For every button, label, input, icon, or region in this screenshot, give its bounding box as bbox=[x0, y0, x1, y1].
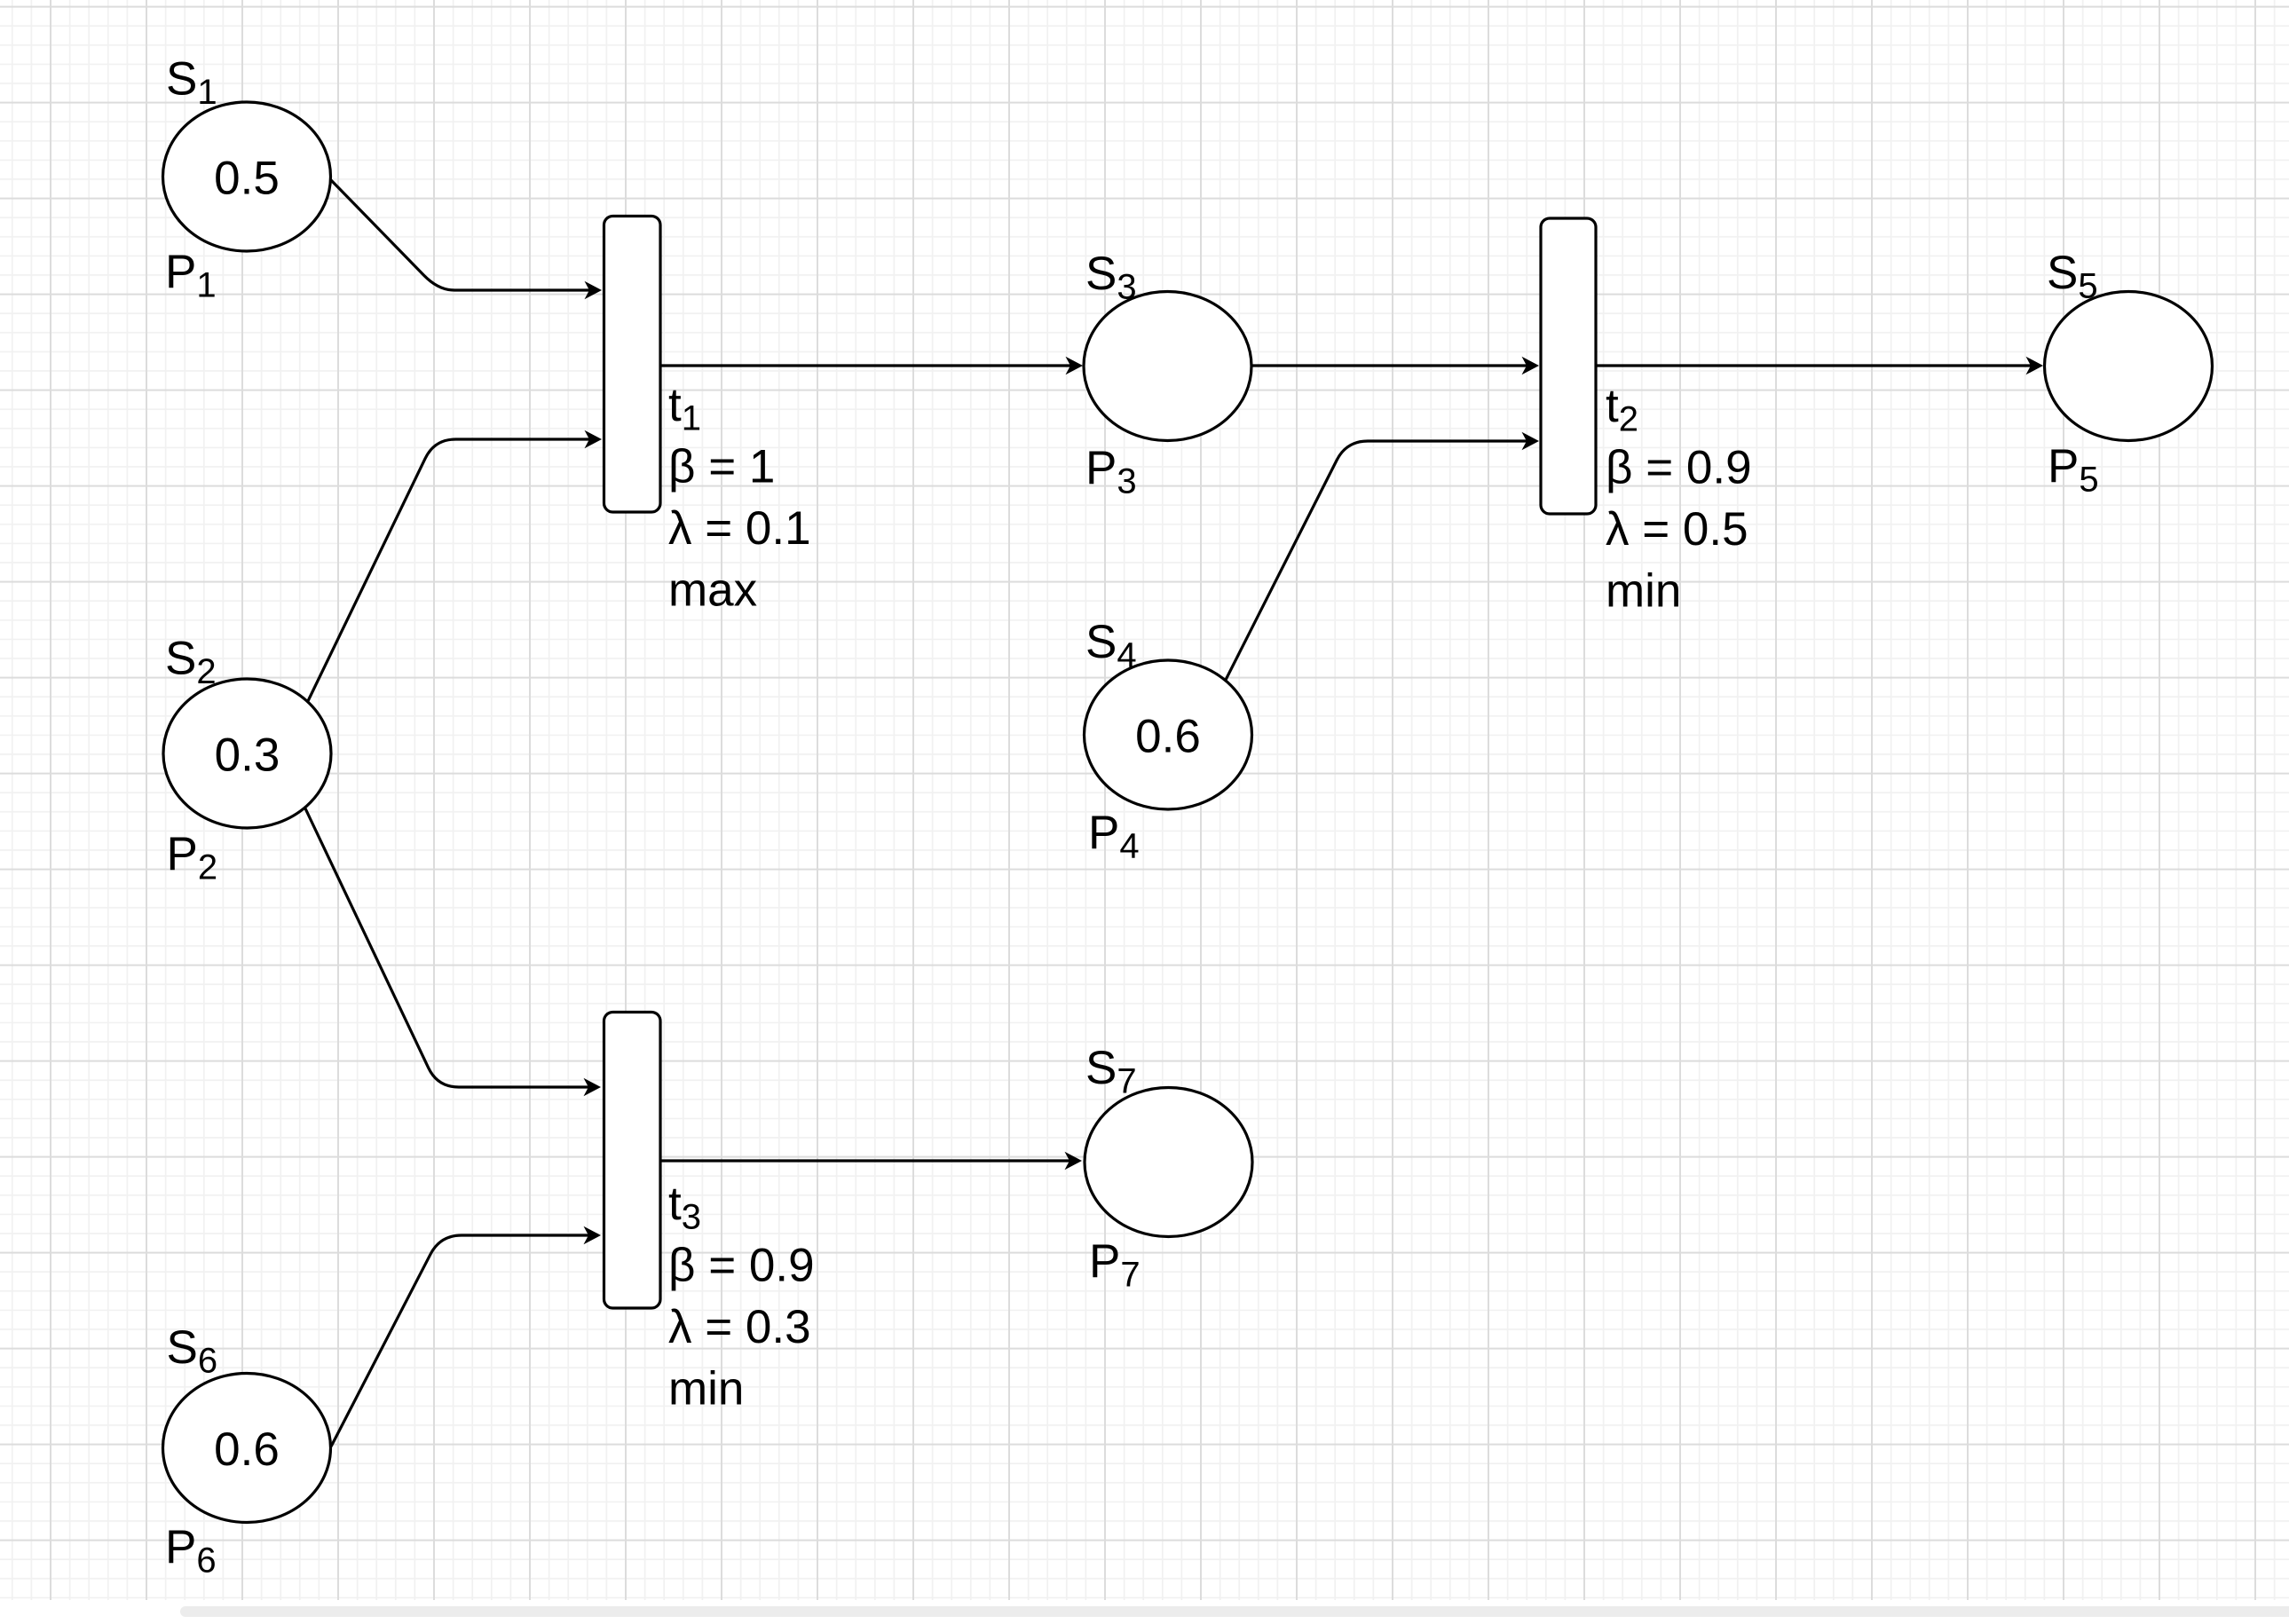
arrowhead S3 to t2 bbox=[1522, 357, 1540, 375]
svg-text:0.5: 0.5 bbox=[214, 153, 280, 205]
transition t1 bar bbox=[604, 217, 661, 513]
place S3 (P3) circle bbox=[1084, 292, 1251, 441]
svg-text:λ = 0.1: λ = 0.1 bbox=[668, 502, 811, 555]
svg-text:β = 0.9: β = 0.9 bbox=[1606, 442, 1752, 494]
wire t1 to S3 bbox=[661, 364, 1070, 367]
svg-text:min: min bbox=[668, 1363, 744, 1415]
svg-text:0.6: 0.6 bbox=[1135, 711, 1201, 763]
wire t3 to S7 bbox=[661, 1159, 1070, 1162]
wire S6 to t3 bbox=[331, 1235, 588, 1447]
svg-text:max: max bbox=[668, 564, 757, 617]
bottom scrollbar area bbox=[0, 1600, 2289, 1624]
arrowhead S6 to t3 bbox=[584, 1226, 602, 1245]
place S7 (P7) circle bbox=[1085, 1088, 1252, 1237]
wire t2 to S5 bbox=[1597, 364, 2031, 367]
wire S3 to t2 bbox=[1252, 364, 1527, 367]
wire S2 to t1 bbox=[307, 439, 589, 703]
svg-text:min: min bbox=[1606, 565, 1681, 618]
svg-text:β = 1: β = 1 bbox=[668, 441, 775, 493]
scrollbar thumb bbox=[180, 1606, 2289, 1617]
arrowhead S2 to t1 bbox=[585, 430, 603, 449]
transition t3 bar bbox=[604, 1013, 661, 1309]
arrowhead S4 to t2 bbox=[1522, 432, 1540, 451]
place S5 (P5) circle bbox=[2045, 292, 2213, 441]
svg-text:0.3: 0.3 bbox=[215, 729, 280, 782]
arrowhead S1 to t1 bbox=[585, 281, 603, 300]
transition t2 bar bbox=[1541, 218, 1596, 514]
wire S1 to t1 bbox=[330, 179, 589, 290]
svg-text:β = 0.9: β = 0.9 bbox=[668, 1240, 815, 1292]
place S2 (P2) circle bbox=[163, 679, 331, 828]
svg-text:0.6: 0.6 bbox=[214, 1423, 280, 1476]
wire S2 to t3 bbox=[305, 808, 588, 1087]
svg-text:λ = 0.3: λ = 0.3 bbox=[668, 1301, 811, 1353]
place S6 (P6) circle bbox=[163, 1374, 331, 1523]
arrowhead t2 to S5 bbox=[2026, 357, 2044, 375]
arrowhead t3 to S7 bbox=[1065, 1152, 1083, 1171]
svg-text:λ = 0.5: λ = 0.5 bbox=[1606, 503, 1748, 556]
arrowhead t1 to S3 bbox=[1066, 357, 1084, 375]
arrowhead S2 to t3 bbox=[584, 1078, 602, 1097]
place S1 (P1) circle bbox=[163, 102, 331, 251]
place S4 (P4) circle bbox=[1085, 660, 1252, 809]
wire S4 to t2 bbox=[1225, 441, 1527, 682]
